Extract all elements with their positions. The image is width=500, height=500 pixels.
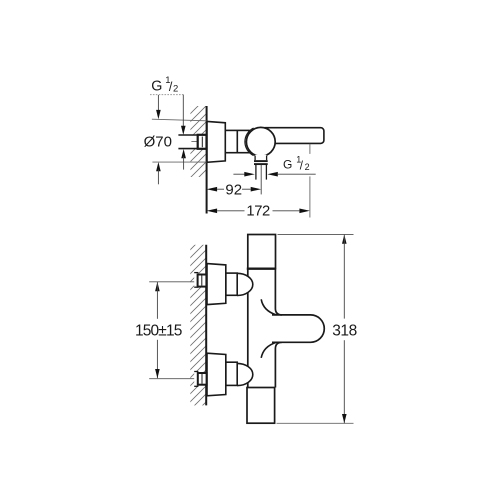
bottom inlet connector [226, 362, 237, 385]
leader shelf under G1/2 [150, 94, 183, 96]
svg-text:92: 92 [225, 181, 242, 198]
valve body cylinder (top view) [225, 130, 249, 152]
wall flange escutcheon (top view) [207, 121, 225, 162]
bottom supply washer [194, 372, 198, 387]
body bottom cap [247, 388, 275, 424]
body left edge [247, 269, 249, 388]
handle skirt arc lower [261, 342, 276, 358]
supply center line bottom (extension 150) [149, 378, 199, 380]
outlet thread stub G1/2 [256, 165, 267, 180]
dimension 150±15 [135, 282, 182, 378]
union nut (top view) [198, 135, 207, 149]
lever handle bar (top view) [262, 128, 324, 144]
top inlet connector [226, 273, 237, 295]
svg-text:318: 318 [332, 323, 357, 340]
outlet collar [255, 155, 267, 161]
label G1/2 right [283, 154, 310, 172]
top supply nut [198, 275, 207, 287]
dimension 172 [207, 204, 310, 220]
svg-text:172: 172 [246, 204, 270, 220]
body top cap [248, 235, 276, 269]
bottom inlet bulge [237, 363, 253, 385]
bottom supply nut [198, 373, 207, 385]
label G1/2 top-left [151, 75, 178, 95]
cylinder divider line [236, 130, 238, 152]
wall hatch (top view) [190, 106, 206, 177]
leader arrows G1/2 to supply pipe [181, 95, 186, 170]
rear arc of valve head [245, 128, 254, 156]
svg-text:Ø70: Ø70 [144, 134, 172, 151]
wall hatch (bottom view) [190, 245, 206, 406]
body right edge with handle fillets [275, 269, 282, 388]
svg-text:G: G [151, 79, 162, 95]
top supply washer [194, 273, 198, 288]
svg-text:150±15: 150±15 [135, 322, 182, 339]
svg-text:G: G [283, 157, 292, 171]
supply pipe (top view) [178, 135, 199, 149]
outlet center line [260, 165, 262, 195]
dimension Ø70 [144, 95, 207, 184]
top inlet bulge [237, 273, 253, 295]
wall face line (top view) [206, 106, 208, 214]
outlet diameter arrows [233, 172, 315, 177]
handle skirt arc upper [261, 299, 276, 315]
extension line 172 (from handle end) [309, 144, 311, 218]
wall face line (bottom view) [205, 245, 207, 406]
dimension 318 [277, 235, 357, 424]
handle tongue [272, 315, 324, 342]
top inlet escutcheon [207, 264, 226, 305]
body cap thick base line [247, 268, 276, 270]
outlet ring [254, 160, 268, 165]
dimension 92 [207, 181, 262, 198]
bottom inlet escutcheon [207, 353, 226, 396]
valve head circle [246, 127, 275, 156]
svg-text:/: / [300, 160, 304, 172]
svg-text:2: 2 [305, 162, 310, 172]
supply center line top (extension 150) [149, 281, 199, 283]
svg-text:2: 2 [173, 84, 178, 95]
